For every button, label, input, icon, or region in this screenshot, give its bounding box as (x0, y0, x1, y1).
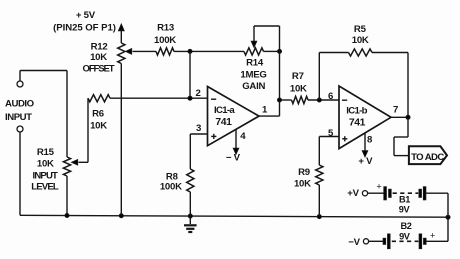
svg-text:+V: +V (347, 188, 359, 199)
svg-text:R13: R13 (157, 23, 174, 34)
svg-text:741: 741 (349, 118, 366, 129)
svg-text:9V: 9V (399, 205, 411, 215)
svg-text:IC1-a: IC1-a (214, 105, 235, 116)
svg-text:B1: B1 (399, 195, 410, 205)
svg-text:7: 7 (393, 104, 398, 115)
svg-text:INPUT: INPUT (33, 170, 59, 181)
svg-text:10K: 10K (290, 83, 307, 94)
svg-text:R15: R15 (37, 147, 55, 158)
svg-text:3: 3 (196, 123, 201, 134)
svg-text:(PIN25 OF P1): (PIN25 OF P1) (53, 23, 116, 34)
svg-text:5: 5 (328, 128, 334, 139)
svg-text:R6: R6 (92, 109, 104, 120)
svg-text:R9: R9 (298, 167, 310, 178)
svg-text:10K: 10K (37, 159, 54, 170)
svg-text:6: 6 (328, 91, 333, 102)
svg-text:100K: 100K (160, 182, 182, 193)
svg-text:10K: 10K (90, 121, 107, 132)
svg-text:+: + (376, 182, 381, 192)
svg-text:10K: 10K (90, 52, 107, 63)
svg-text:+ 5V: + 5V (76, 10, 96, 21)
svg-text:IC1-b: IC1-b (346, 105, 367, 116)
svg-text:B2: B2 (401, 221, 412, 231)
svg-text:100K: 100K (154, 35, 176, 46)
svg-text:9V: 9V (399, 231, 411, 241)
svg-text:4: 4 (240, 131, 246, 142)
svg-text:−V: −V (348, 237, 360, 248)
svg-text:10K: 10K (352, 35, 369, 46)
svg-text:R5: R5 (354, 24, 367, 35)
svg-text:+ V: + V (358, 156, 373, 167)
svg-text:10K: 10K (294, 178, 311, 189)
svg-text:GAIN: GAIN (242, 81, 265, 92)
svg-text:LEVEL: LEVEL (31, 182, 59, 193)
svg-text:741: 741 (215, 117, 232, 128)
svg-text:R7: R7 (292, 71, 304, 82)
svg-text:1: 1 (262, 104, 268, 115)
svg-text:2: 2 (195, 88, 200, 99)
svg-text:− V: − V (226, 152, 241, 163)
svg-text:AUDIO: AUDIO (5, 99, 35, 110)
svg-text:R14: R14 (246, 58, 264, 69)
svg-text:R12: R12 (91, 41, 108, 52)
svg-text:TO ADC: TO ADC (411, 152, 444, 163)
svg-text:INPUT: INPUT (5, 112, 32, 123)
svg-text:+: + (430, 230, 435, 240)
svg-text:1MEG: 1MEG (240, 69, 266, 80)
svg-text:OFFSET: OFFSET (83, 63, 115, 74)
svg-text:8: 8 (367, 134, 373, 145)
